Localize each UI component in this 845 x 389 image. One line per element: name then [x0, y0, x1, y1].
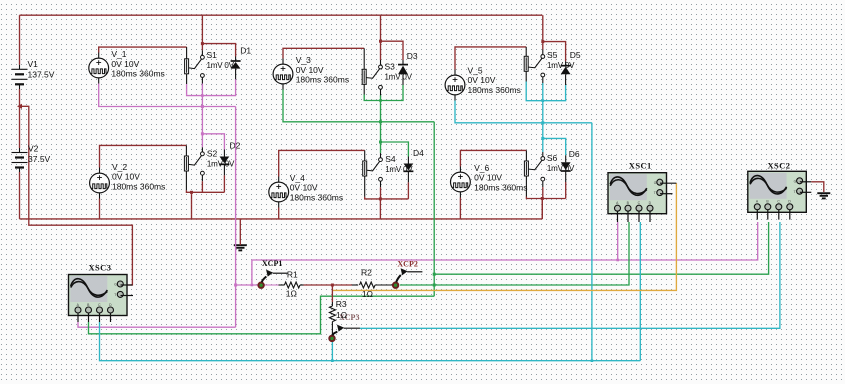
oscilloscope XSC3	[69, 275, 128, 316]
junction to bus	[541, 197, 544, 200]
svg-text:V_5: V_5	[468, 65, 483, 75]
wire green R2 to junction	[400, 284, 434, 286]
svg-text:D6: D6	[569, 149, 580, 159]
oscilloscope XSC1	[608, 173, 667, 214]
svg-text:G: G	[654, 181, 657, 185]
pulse source V_5	[445, 75, 465, 95]
wire pink to XCP1/R1	[236, 284, 258, 286]
XSC1 G/T stubs	[660, 182, 676, 184]
svg-text:XSC3: XSC3	[89, 263, 112, 273]
wire cyan bottom line XSC3 C	[100, 322, 641, 361]
junction arrow V1/V2 midpoint	[17, 104, 22, 109]
svg-text:V2: V2	[28, 144, 39, 154]
wire phase2 output drop (green vertical)	[433, 122, 435, 296]
wire phase3 output drop (cyan vertical)	[591, 123, 593, 361]
left rail wire (V1 branch)	[19, 15, 21, 65]
svg-text:T: T	[114, 293, 116, 297]
wire V1 bottom to midpoint	[19, 84, 21, 89]
junction XSC1 A	[616, 259, 619, 262]
wire S4 coil- / D4 cathode to bus	[364, 176, 366, 197]
wire S3 bottom contact down	[380, 89, 382, 97]
svg-text:180ms 360ms: 180ms 360ms	[290, 192, 343, 202]
current probe XCP2	[393, 268, 423, 288]
junction to bus	[379, 197, 382, 200]
resistor R2	[360, 282, 376, 288]
wire V_5- to output drop	[454, 95, 456, 101]
svg-text:V_1: V_1	[111, 49, 126, 59]
junction bus/D3	[379, 40, 382, 43]
diode D1 (cathode up)	[231, 61, 241, 69]
top bus wire	[20, 14, 543, 16]
wire output node to D4 anode	[381, 142, 409, 157]
battery V1	[12, 69, 28, 84]
svg-text:XSC1: XSC1	[629, 161, 652, 171]
diode D6 (cathode down)	[561, 162, 571, 171]
svg-text:S5: S5	[547, 50, 558, 60]
wire V_6+ to S6 coil	[459, 167, 461, 173]
svg-text:V_6: V_6	[474, 163, 489, 173]
XSC2 terminal pins	[756, 210, 758, 220]
svg-text:R1: R1	[287, 270, 298, 280]
junction phase1 output	[201, 105, 204, 108]
XSC3 G/T stubs	[121, 284, 133, 286]
pulse source V_4	[269, 182, 289, 202]
wire S1 bottom contact down	[201, 78, 203, 86]
svg-text:0V 10V: 0V 10V	[296, 65, 324, 75]
wire green to XSC1 B	[434, 222, 629, 285]
wire top bus drop to S1 contact	[201, 15, 203, 50]
wire output node to D6 anode	[543, 138, 566, 155]
wire S1 coil- to D1 anode	[186, 74, 188, 84]
svg-text:V1: V1	[28, 59, 39, 69]
svg-text:R2: R2	[361, 268, 372, 278]
wire V_1+ to S1 coil	[98, 53, 100, 59]
pulse source V_2	[90, 173, 110, 193]
svg-text:S4: S4	[385, 154, 396, 164]
wire V_1- to output drop	[98, 78, 100, 84]
wire output node: S1 bottom to S2 top contact	[201, 84, 203, 148]
svg-text:0V 10V: 0V 10V	[290, 183, 318, 193]
svg-text:180ms 360ms: 180ms 360ms	[474, 183, 527, 193]
resistor R3 (vertical)	[329, 306, 335, 322]
pulse source V_6	[451, 172, 471, 192]
wire S2 coil- / D2 cathode to bus	[185, 171, 187, 190]
wire bus end riser (phase 3)	[541, 199, 543, 219]
svg-text:0V 10V: 0V 10V	[112, 172, 140, 182]
wire drop to bus	[191, 192, 193, 219]
wire S4 bottom contact to coil line	[380, 181, 382, 187]
wire cyan XCP3 tail to XSC2 C	[360, 222, 780, 328]
svg-text:T: T	[654, 191, 656, 195]
svg-text:XCP1: XCP1	[262, 259, 282, 268]
wire output node: S5 bottom to S6 top contact	[542, 83, 544, 152]
svg-text:D3: D3	[407, 51, 418, 61]
wire XSC1 A drop	[617, 222, 619, 260]
junction pink to XCP1	[234, 284, 237, 287]
svg-text:0V 10V: 0V 10V	[111, 59, 139, 69]
wire midpoint branch to XSC3 G	[20, 106, 133, 285]
wire pink to XSC3 A	[78, 322, 236, 327]
junction output/D2	[201, 132, 204, 135]
svg-text:S3: S3	[385, 62, 396, 72]
current probe XCP1	[258, 270, 287, 288]
current probe XCP3	[329, 325, 360, 341]
junction output/D6	[541, 137, 544, 140]
wire S3 coil- to D3 anode	[363, 84, 365, 94]
svg-text:G: G	[114, 283, 117, 287]
svg-text:V_4: V_4	[290, 173, 305, 183]
svg-text:1mV 0V: 1mV 0V	[207, 61, 235, 70]
svg-text:T: T	[794, 190, 796, 194]
wire S5 bottom contact down	[542, 77, 544, 85]
resistor R1	[284, 282, 300, 288]
switch S2	[184, 152, 204, 175]
junction green/R2	[433, 284, 436, 287]
ground bus ground	[234, 245, 247, 250]
wire S3 to D3 cathode	[381, 41, 404, 60]
wire red R1-R2 row	[304, 284, 353, 286]
wire XSC2 G to ground	[811, 182, 824, 192]
switch S5	[524, 55, 544, 77]
svg-text:S6: S6	[547, 153, 558, 163]
wire drop to bus	[541, 199, 543, 219]
junction bus/D1	[201, 42, 204, 45]
junction phase2 output	[379, 120, 382, 123]
wire V_3+ to S3 coil	[282, 59, 284, 65]
wire top bus drop to S5 contact	[542, 15, 544, 49]
wire S6 bottom contact to coil line	[542, 181, 544, 187]
junction R3	[331, 284, 334, 287]
svg-text:180ms 360ms: 180ms 360ms	[468, 85, 521, 95]
battery V2	[12, 153, 28, 168]
svg-text:180ms 360ms: 180ms 360ms	[112, 181, 165, 191]
junction bus/D5	[541, 40, 544, 43]
junction phase3 output	[541, 121, 544, 124]
svg-text:D4: D4	[413, 148, 424, 158]
pulse source V_1	[89, 58, 109, 78]
XSC2 G/T stubs	[800, 181, 812, 183]
diode D2 (cathode down)	[219, 157, 229, 165]
R3 pins	[331, 302, 333, 306]
svg-text:D5: D5	[570, 50, 581, 60]
svg-text:180ms 360ms: 180ms 360ms	[111, 69, 164, 79]
wire bus to ground	[239, 219, 241, 245]
svg-text:0V 10V: 0V 10V	[474, 173, 502, 183]
svg-text:1Ω: 1Ω	[362, 289, 373, 299]
switch S4	[363, 158, 383, 182]
switch S6	[524, 157, 544, 181]
wire green to XSC2 B	[434, 222, 768, 274]
wire XCP3 drop	[331, 342, 333, 361]
junction to bus	[190, 191, 193, 194]
svg-text:G: G	[794, 179, 797, 183]
XSC3 terminal pins	[77, 313, 79, 322]
wire V2 bottom to bottom bus	[19, 168, 21, 173]
wire drop to bus	[379, 199, 381, 219]
wire V_4+ to S4 coil	[278, 177, 280, 183]
svg-text:180ms 360ms: 180ms 360ms	[296, 75, 349, 85]
bottom bus wire	[20, 218, 543, 220]
XSC1 terminal pins	[617, 211, 619, 222]
svg-text:137.5V: 137.5V	[28, 70, 55, 80]
ground XSC2 ground	[817, 193, 830, 198]
svg-text:37.5V: 37.5V	[28, 154, 51, 164]
wire XSC1 C drop	[639, 222, 641, 361]
wire orange XSC1 G to R3 node	[333, 183, 677, 290]
wire V_4- to bus	[278, 202, 280, 208]
wire green lower branch to XSC3 B	[89, 296, 435, 334]
wire S6 coil- / D6 cathode to bus	[525, 176, 527, 197]
junction output/D4	[379, 141, 382, 144]
wire V_2- to bus	[99, 193, 101, 199]
wire V_3- to output drop	[282, 84, 284, 90]
wire S5 to D5 cathode	[543, 42, 566, 62]
svg-text:S2: S2	[207, 149, 218, 159]
oscilloscope XSC2	[748, 171, 807, 212]
svg-text:V_3: V_3	[296, 55, 311, 65]
svg-text:R3: R3	[336, 299, 347, 309]
switch S1	[185, 55, 205, 77]
pulse source V_3	[273, 64, 293, 84]
wire S2 bottom contact to coil line	[201, 175, 203, 181]
svg-text:XCP2: XCP2	[397, 260, 417, 269]
svg-text:D1: D1	[240, 46, 251, 56]
svg-text:S1: S1	[207, 50, 218, 60]
wire output node: S3 bottom to S4 top contact	[380, 95, 382, 153]
wire S5 coil- to D5 anode	[525, 71, 527, 81]
wire V_6- to bus	[459, 192, 461, 198]
svg-text:1Ω: 1Ω	[286, 289, 297, 299]
junction green/XSC2 B	[433, 273, 436, 276]
diode D5 (cathode up)	[561, 66, 571, 75]
wire V_5+ to S5 coil	[454, 70, 456, 76]
diode D3 (cathode up)	[398, 65, 408, 75]
wire S1 to D1 cathode	[202, 44, 235, 57]
wire phase1 output drop (pink vertical)	[235, 107, 237, 328]
svg-text:XSC2: XSC2	[768, 160, 791, 170]
switch S3	[362, 65, 382, 89]
wire output node to D2 anode	[202, 134, 224, 150]
svg-text:1Ω: 1Ω	[336, 310, 347, 320]
svg-text:0V 10V: 0V 10V	[468, 75, 496, 85]
diode D4 (cathode down)	[403, 164, 413, 172]
wire pink long line to XSC2 A	[252, 222, 758, 285]
wire V_2+ to S2 coil	[99, 168, 101, 174]
svg-text:V_2: V_2	[112, 162, 127, 172]
wire top bus drop to S3 contact	[380, 15, 382, 60]
wire red R3 feed	[331, 285, 333, 302]
